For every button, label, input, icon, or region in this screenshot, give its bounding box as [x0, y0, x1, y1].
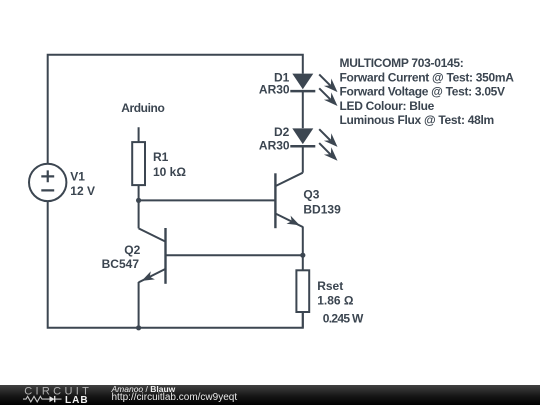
- svg-text:1.86 Ω: 1.86 Ω: [317, 294, 354, 308]
- svg-text:Q2: Q2: [124, 243, 140, 257]
- svg-text:V1: V1: [70, 170, 85, 184]
- svg-text:AR30: AR30: [259, 138, 290, 152]
- svg-text:Forward Current @ Test: 350mA: Forward Current @ Test: 350mA: [340, 70, 515, 84]
- svg-text:LAB: LAB: [65, 395, 89, 405]
- svg-text:LED Colour: Blue: LED Colour: Blue: [340, 99, 435, 113]
- svg-text:Luminous Flux @ Test: 48lm: Luminous Flux @ Test: 48lm: [340, 113, 494, 127]
- svg-text:Rset: Rset: [317, 279, 343, 293]
- svg-text:Arduino: Arduino: [121, 101, 164, 115]
- svg-text:R1: R1: [153, 150, 169, 164]
- svg-text:AR30: AR30: [259, 83, 290, 97]
- svg-text:0.245 W: 0.245 W: [323, 312, 364, 326]
- svg-text:BC547: BC547: [102, 257, 140, 271]
- svg-text:Forward Voltage @ Test: 3.05V: Forward Voltage @ Test: 3.05V: [340, 85, 506, 99]
- svg-text:12 V: 12 V: [70, 184, 95, 198]
- svg-text:MULTICOMP 703-0145:: MULTICOMP 703-0145:: [340, 56, 464, 70]
- svg-text:Q3: Q3: [303, 188, 319, 202]
- svg-text:BD139: BD139: [303, 202, 341, 216]
- svg-text:10 kΩ: 10 kΩ: [153, 165, 186, 179]
- svg-text:D2: D2: [274, 125, 290, 139]
